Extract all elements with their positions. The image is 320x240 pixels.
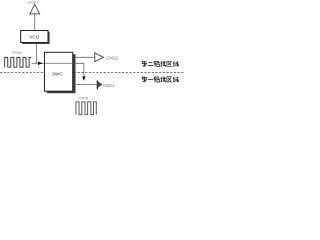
区 [167,77,172,82]
svg-text:GND2: GND2 [106,55,119,60]
PWM waveform 2 [76,102,96,115]
SWC box [45,52,76,93]
wire VCO to junction [36,43,38,64]
地 [160,77,166,82]
ground GND2 right triangle [95,53,104,62]
arrowhead down [82,76,85,81]
地 [160,61,166,66]
PWM waveform 1 [5,57,32,67]
svg-text:PWM: PWM [78,96,88,101]
路 [154,77,159,82]
ground GND1 symbol [96,80,98,89]
net boundary dashed line [0,71,184,73]
路 [154,61,159,66]
一 [148,79,153,81]
第 [142,77,147,83]
arrowhead into SWC [38,62,43,65]
wire SWC to GND2 right [75,56,95,58]
wire PWM input to SWC [32,62,45,64]
svg-text:GND2: GND2 [27,0,39,5]
wire triangle to VCO [34,14,36,31]
二 [148,63,153,66]
svg-text:SWC: SWC [52,72,63,77]
svg-text:PWM: PWM [12,50,22,55]
区 [167,61,172,66]
node label 第一路地区域 (first-circuit ground region) [142,77,179,83]
域 [173,77,179,82]
域 [173,61,179,66]
第 [142,61,147,67]
wire SWC down arrow [75,63,84,77]
svg-text:VCO: VCO [29,34,39,39]
node label 第二路地区域 (second-circuit ground region) [142,61,179,67]
VCO box [21,31,50,45]
svg-text:GND1: GND1 [103,83,116,88]
ground GND2 top triangle [30,4,40,14]
wire SWC to GND1 [74,84,96,86]
wire through SWC interior [45,62,73,64]
